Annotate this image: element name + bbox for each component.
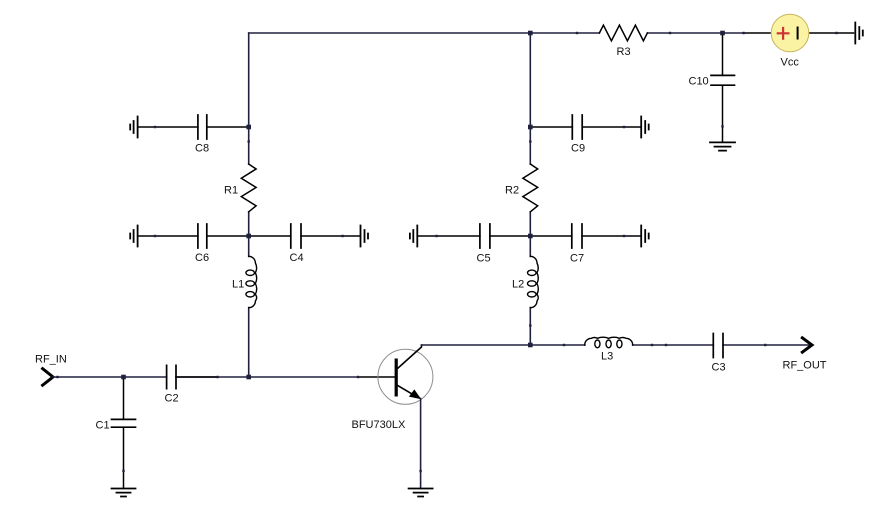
- inductor L2: [528, 256, 539, 307]
- ground below emitter: [409, 489, 433, 497]
- svg-text:C6: C6: [195, 252, 209, 264]
- wire emitter vertical: [420, 399, 422, 489]
- wire C5 C7 row: [418, 235, 642, 237]
- wire bottom rail: [53, 376, 218, 378]
- svg-text:L1: L1: [232, 279, 244, 291]
- resistor R1: [241, 164, 256, 212]
- svg-text:BFU730LX: BFU730LX: [352, 419, 406, 431]
- capacitor C7: [572, 224, 582, 248]
- ground right of C7 (points right): [641, 226, 649, 247]
- svg-text:Vcc: Vcc: [781, 57, 800, 69]
- wire Vcc to top-right ground: [809, 32, 854, 34]
- svg-text:C5: C5: [477, 253, 491, 265]
- capacitor C8: [198, 115, 207, 139]
- wire C6 C4 row: [138, 235, 360, 237]
- svg-text:R1: R1: [224, 185, 238, 197]
- resistor R3: [599, 25, 647, 41]
- capacitor C6: [198, 224, 207, 248]
- ground below C10: [710, 142, 735, 150]
- capacitor C9: [572, 115, 582, 139]
- resistor R2: [523, 164, 538, 212]
- power source Vcc: [771, 14, 809, 68]
- ground right of C9 (points right): [641, 117, 649, 138]
- wire C9 row: [530, 126, 641, 128]
- wire top rail right of R3: [647, 32, 743, 34]
- ground right of C4 (points right): [361, 226, 369, 247]
- wire C8 row: [138, 126, 249, 128]
- output port RF_OUT: [783, 338, 827, 372]
- ground left of C5 (points left): [410, 226, 417, 247]
- input port RF_IN: [35, 354, 67, 386]
- svg-text:RF_OUT: RF_OUT: [783, 360, 827, 372]
- ground left of C6 (points left): [130, 226, 137, 247]
- capacitor C1: [96, 377, 136, 488]
- transistor Q1 BFU730LX: [352, 345, 433, 431]
- svg-text:RF_IN: RF_IN: [35, 354, 67, 366]
- inductor L1: [246, 256, 257, 307]
- ground below C1: [112, 489, 136, 497]
- wire collector rail: [422, 344, 810, 346]
- inductor L3: [585, 337, 633, 348]
- svg-text:C2: C2: [165, 393, 179, 405]
- capacitor C5: [480, 224, 490, 248]
- wire top rail left segment: [249, 32, 600, 34]
- svg-text:C3: C3: [712, 362, 726, 374]
- wire Vcc left pin stub: [744, 32, 772, 34]
- capacitor C4: [291, 224, 301, 248]
- wire base pin stub: [358, 376, 395, 378]
- capacitor C3: [713, 334, 723, 358]
- capacitor C10: [689, 33, 735, 142]
- ground left of C8 (points left): [130, 117, 137, 138]
- svg-text:C9: C9: [571, 143, 585, 155]
- svg-text:R2: R2: [505, 185, 519, 197]
- svg-text:C1: C1: [96, 420, 110, 432]
- ground top right (points right): [855, 23, 863, 44]
- wire middle column vertical: [529, 33, 531, 345]
- svg-text:C7: C7: [570, 253, 584, 265]
- svg-text:C4: C4: [290, 252, 304, 264]
- svg-text:C8: C8: [195, 143, 209, 155]
- svg-text:L2: L2: [512, 279, 524, 291]
- wire left column vertical: [248, 33, 250, 377]
- pin dots: [56, 32, 837, 472]
- svg-text:R3: R3: [617, 46, 631, 58]
- capacitor C2: [167, 365, 176, 388]
- svg-text:C10: C10: [689, 76, 709, 88]
- svg-text:L3: L3: [601, 351, 613, 363]
